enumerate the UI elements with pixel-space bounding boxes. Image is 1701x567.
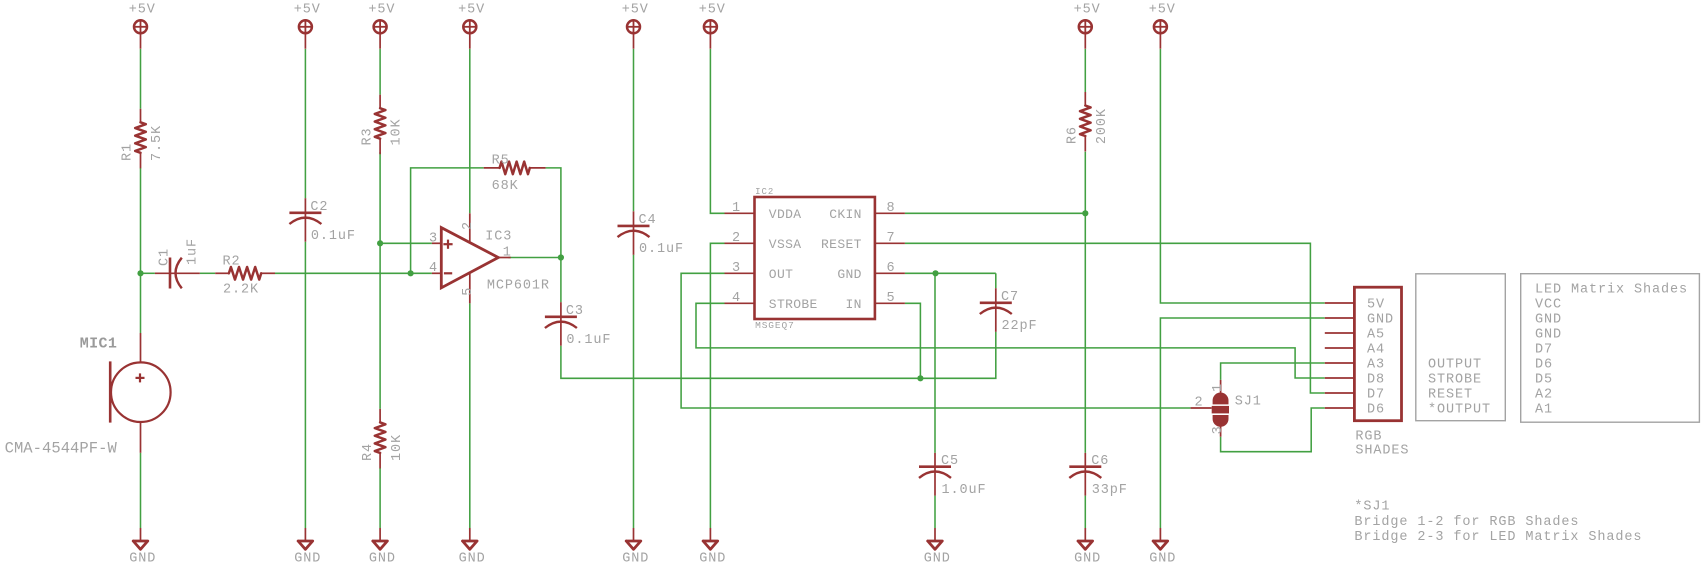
svg-text:+5V: +5V [368,3,395,18]
svg-text:1uF: 1uF [186,238,201,265]
svg-text:R4: R4 [361,443,376,461]
svg-text:LED Matrix Shades: LED Matrix Shades [1535,283,1688,298]
svg-text:22pF: 22pF [1002,319,1038,334]
svg-text:OUTPUT: OUTPUT [1428,358,1482,373]
svg-text:D5: D5 [1535,373,1553,388]
svg-text:Bridge 2-3 for LED Matrix Shad: Bridge 2-3 for LED Matrix Shades [1354,530,1642,545]
svg-text:IN: IN [845,297,861,312]
svg-text:2: 2 [732,231,741,246]
svg-text:C5: C5 [941,454,959,469]
svg-text:0.1uF: 0.1uF [566,333,611,348]
svg-text:C6: C6 [1091,454,1109,469]
svg-text:RESET: RESET [1428,388,1473,403]
svg-text:IC3: IC3 [485,229,512,244]
svg-text:2.2K: 2.2K [223,283,259,298]
svg-text:+5V: +5V [1149,3,1176,18]
svg-text:1: 1 [503,246,512,261]
svg-text:SHADES: SHADES [1355,443,1409,458]
svg-text:GND: GND [1535,313,1562,328]
svg-text:7.5K: 7.5K [150,125,165,161]
svg-text:3: 3 [429,232,438,247]
svg-text:GND: GND [699,552,726,567]
svg-text:+5V: +5V [622,3,649,18]
svg-text:4: 4 [429,261,438,276]
svg-text:+5V: +5V [1074,3,1101,18]
svg-text:IC2: IC2 [755,187,774,197]
svg-text:C3: C3 [566,304,584,319]
svg-text:R3: R3 [361,127,376,145]
svg-text:2: 2 [1194,396,1203,411]
svg-text:33pF: 33pF [1092,483,1128,498]
svg-text:STROBE: STROBE [769,297,818,312]
svg-text:3: 3 [732,261,741,276]
svg-text:GND: GND [1074,552,1101,567]
svg-text:SJ1: SJ1 [1235,395,1262,410]
svg-text:VDDA: VDDA [769,207,802,222]
svg-text:GND: GND [1535,328,1562,343]
svg-text:+5V: +5V [699,3,726,18]
svg-text:A3: A3 [1367,358,1385,373]
svg-text:GND: GND [837,267,861,282]
svg-text:GND: GND [369,552,396,567]
svg-text:GND: GND [1149,552,1176,567]
svg-text:5V: 5V [1367,298,1385,313]
svg-text:68K: 68K [492,179,519,194]
svg-text:A2: A2 [1535,388,1553,403]
svg-text:C1: C1 [158,248,173,266]
svg-text:VCC: VCC [1535,298,1562,313]
svg-text:7: 7 [886,231,895,246]
svg-text:D7: D7 [1367,388,1385,403]
svg-text:A1: A1 [1535,403,1553,418]
svg-text:R6: R6 [1065,126,1080,144]
svg-text:+5V: +5V [458,3,485,18]
svg-text:3: 3 [1211,425,1226,434]
svg-text:0.1uF: 0.1uF [311,229,356,244]
svg-text:GND: GND [294,552,321,567]
svg-text:4: 4 [732,291,741,306]
svg-text:A4: A4 [1367,343,1385,358]
svg-text:6: 6 [886,261,895,276]
svg-text:C4: C4 [639,213,657,228]
svg-text:*SJ1: *SJ1 [1354,500,1390,515]
svg-text:+5V: +5V [294,3,321,18]
svg-text:D6: D6 [1367,403,1385,418]
svg-text:GND: GND [459,552,486,567]
svg-text:MIC1: MIC1 [80,335,117,352]
svg-text:10K: 10K [390,434,405,461]
svg-text:10K: 10K [390,118,405,145]
svg-text:5: 5 [461,287,476,296]
svg-text:5: 5 [886,291,895,306]
svg-text:2: 2 [461,221,476,230]
svg-text:MCP601R: MCP601R [487,279,550,294]
svg-text:R1: R1 [121,143,136,161]
svg-text:200K: 200K [1095,108,1110,144]
svg-text:8: 8 [886,201,895,216]
svg-text:D6: D6 [1535,358,1553,373]
svg-text:+5V: +5V [129,3,156,18]
svg-text:R2: R2 [223,255,241,270]
svg-text:RGB: RGB [1355,429,1382,444]
svg-text:VSSA: VSSA [769,237,802,252]
svg-text:MSGEQ7: MSGEQ7 [755,320,795,331]
svg-text:Bridge 1-2 for RGB Shades: Bridge 1-2 for RGB Shades [1354,515,1579,530]
svg-text:CMA-4544PF-W: CMA-4544PF-W [5,439,118,457]
svg-text:C2: C2 [310,200,328,215]
svg-text:C7: C7 [1001,290,1019,305]
svg-text:D8: D8 [1367,373,1385,388]
svg-text:1: 1 [1211,383,1226,392]
svg-text:STROBE: STROBE [1428,373,1482,388]
svg-text:GND: GND [129,552,156,567]
svg-text:1.0uF: 1.0uF [942,483,987,498]
svg-text:GND: GND [1367,313,1394,328]
svg-text:GND: GND [924,552,951,567]
svg-text:R5: R5 [492,154,510,169]
svg-text:0.1uF: 0.1uF [639,242,684,257]
svg-text:A5: A5 [1367,328,1385,343]
svg-text:D7: D7 [1535,343,1553,358]
svg-text:*OUTPUT: *OUTPUT [1428,403,1491,418]
svg-text:GND: GND [622,552,649,567]
svg-text:1: 1 [732,201,741,216]
svg-text:CKIN: CKIN [829,207,862,222]
svg-text:RESET: RESET [821,237,862,252]
svg-text:OUT: OUT [769,267,793,282]
